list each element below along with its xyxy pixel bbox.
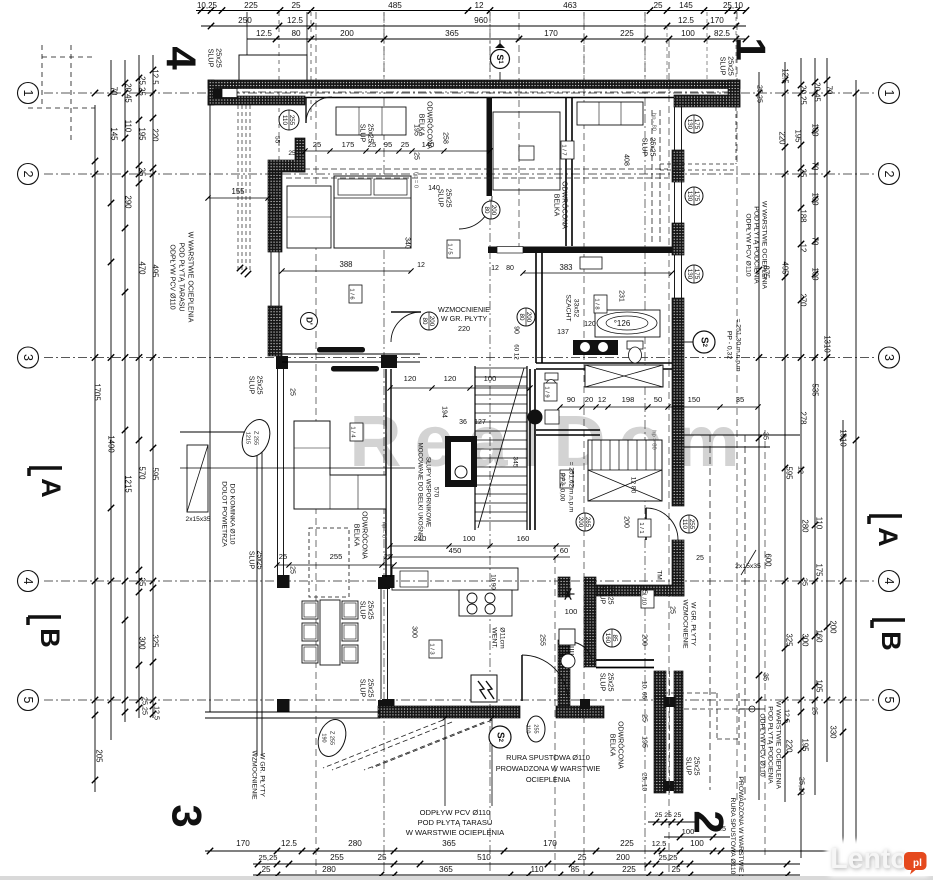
svg-text:365: 365 — [442, 839, 456, 848]
svg-text:1 /10: 1 /10 — [641, 593, 647, 605]
svg-text:255: 255 — [330, 552, 343, 561]
interior wall bath west — [535, 253, 537, 363]
svg-text:535: 535 — [811, 383, 820, 397]
terrace post sw3 — [277, 699, 290, 712]
svg-text:BELKA: BELKA — [553, 194, 560, 217]
svg-text:W GR. PŁYTY: W GR. PŁYTY — [441, 314, 488, 323]
marker Z1 ellipse left — [237, 416, 274, 461]
svg-text:TM: TM — [656, 570, 663, 580]
svg-text:W WARSTWIE OCIEPLENIA: W WARSTWIE OCIEPLENIA — [187, 232, 194, 323]
svg-text:100: 100 — [463, 534, 476, 543]
dashed beam lines mid — [651, 110, 653, 245]
door arc entrance top — [306, 97, 332, 123]
svg-text:80: 80 — [506, 265, 514, 272]
interior wall hall east x530 — [529, 369, 531, 530]
svg-text:140: 140 — [428, 185, 440, 192]
svg-text:3: 3 — [164, 804, 211, 827]
svg-text:= 251,62 m.n.p.m: = 251,62 m.n.p.m — [568, 462, 575, 513]
marker D circle — [301, 313, 318, 330]
interior wall horizontal y250 — [488, 247, 672, 254]
svg-text:100: 100 — [681, 29, 695, 38]
svg-text:RURA SPUSTOWA Ø110: RURA SPUSTOWA Ø110 — [506, 753, 590, 762]
svg-text:12.5: 12.5 — [287, 16, 303, 25]
wing inner wall — [584, 577, 596, 667]
svg-text:330: 330 — [829, 725, 838, 739]
svg-text:WENT.: WENT. — [491, 627, 498, 648]
svg-text:200: 200 — [490, 205, 497, 216]
svg-text:70: 70 — [811, 162, 820, 171]
svg-text:PROWADZONA W WARSTWIE OCIEP: PROWADZONA W WARSTWIE OCIEP — [737, 776, 744, 880]
svg-text:265: 265 — [584, 517, 591, 528]
wall bottom band east — [556, 706, 604, 718]
svg-text:B: B — [35, 628, 65, 648]
door arc right wall — [646, 508, 678, 540]
svg-text:25x25: 25x25 — [367, 600, 374, 619]
svg-text:12.5: 12.5 — [781, 68, 790, 84]
svg-text:383: 383 — [559, 263, 572, 272]
top dimension chain row 2 — [201, 25, 746, 27]
svg-text:70: 70 — [811, 237, 820, 246]
bed bedroom — [334, 176, 411, 248]
svg-text:600: 600 — [764, 553, 773, 567]
door circle entrance — [279, 110, 299, 130]
svg-text:25: 25 — [696, 555, 704, 562]
small crosses bottom terrace — [443, 716, 448, 721]
svg-text:10, 65: 10, 65 — [641, 681, 648, 700]
svg-text:345: 345 — [512, 456, 519, 467]
wing corridor centerline — [669, 671, 671, 793]
svg-text:130: 130 — [686, 119, 693, 130]
column block kitchen sw — [378, 700, 390, 712]
svg-text:120: 120 — [404, 374, 417, 383]
vertical axis x=519 upper — [518, 12, 520, 250]
desk study — [493, 112, 560, 190]
right wall window segment 3 — [674, 255, 676, 300]
room tag 1/4 — [350, 423, 363, 441]
svg-text:MOCOWANE DO BELKI UKOŚNEJ: MOCOWANE DO BELKI UKOŚNEJ — [417, 443, 425, 542]
svg-text:25: 25 — [577, 853, 587, 862]
svg-text:12.5: 12.5 — [281, 839, 297, 848]
section marker S2 bath — [693, 331, 715, 353]
svg-text:450: 450 — [449, 546, 462, 555]
svg-text:12: 12 — [598, 395, 606, 404]
right dimension line c — [800, 58, 802, 858]
svg-text:495: 495 — [151, 264, 160, 278]
svg-text:ODPŁYW PCV Ø110: ODPŁYW PCV Ø110 — [745, 213, 752, 277]
interior wall vertical x489 upper — [487, 97, 493, 196]
svg-text:155: 155 — [231, 187, 245, 196]
window circle right 2 — [685, 187, 703, 205]
wing east band inner — [674, 671, 683, 793]
grid bubble left 4 — [18, 571, 39, 592]
svg-text:300: 300 — [411, 626, 418, 638]
sofa study — [577, 102, 643, 125]
left dimension line e — [152, 55, 154, 718]
svg-text:ODWRÓCONA: ODWRÓCONA — [617, 721, 626, 769]
svg-text:33x52: 33x52 — [573, 299, 580, 318]
section marker S1 — [499, 40, 501, 86]
svg-text:25x25: 25x25 — [727, 56, 736, 76]
svg-text:80: 80 — [291, 29, 301, 38]
wall top-left corner cap — [208, 80, 214, 105]
terrace upper edge line — [180, 431, 262, 433]
svg-text:12.5: 12.5 — [783, 709, 792, 723]
section marker A left — [29, 466, 62, 470]
svg-text:1 / 5: 1 / 5 — [447, 243, 453, 254]
svg-text:2: 2 — [21, 171, 35, 178]
svg-text:SŁUPY WSPORNIKOWE: SŁUPY WSPORNIKOWE — [425, 457, 432, 527]
svg-text:200: 200 — [340, 29, 354, 38]
svg-text:1310: 1310 — [823, 335, 832, 353]
grid bubble right 4 — [879, 571, 900, 592]
bottom right small chain — [648, 821, 695, 823]
svg-text:120: 120 — [444, 374, 457, 383]
vertical axis x=311 upper — [310, 12, 312, 120]
svg-text:W GR. PŁYTY: W GR. PŁYTY — [690, 602, 697, 646]
chimney flue box — [187, 445, 208, 512]
svg-text:170: 170 — [236, 839, 250, 848]
svg-text:SLUP: SLUP — [599, 586, 606, 605]
svg-text:160: 160 — [517, 534, 530, 543]
interior dim kitchen y557 — [390, 556, 570, 558]
column block living sw — [276, 356, 288, 369]
dresser bedroom — [336, 107, 406, 135]
svg-text:175: 175 — [693, 191, 700, 202]
svg-text:50: 50 — [654, 395, 662, 404]
svg-text:225: 225 — [620, 29, 634, 38]
svg-text:25: 25 — [279, 552, 287, 561]
svg-text:hp = 80: hp = 80 — [651, 430, 657, 450]
svg-text:25: 25 — [291, 1, 301, 10]
svg-text:hp - 80: hp - 80 — [651, 113, 657, 131]
column block kitchen nw — [378, 577, 390, 589]
svg-text:110: 110 — [681, 519, 688, 529]
svg-text:1910: 1910 — [839, 429, 848, 447]
svg-text:130: 130 — [686, 191, 693, 202]
svg-text:280: 280 — [801, 519, 810, 533]
svg-text:12: 12 — [474, 1, 484, 10]
svg-text:85: 85 — [570, 865, 580, 874]
svg-text:190: 190 — [321, 733, 327, 742]
svg-text:12.5: 12.5 — [256, 29, 272, 38]
svg-text:300: 300 — [801, 633, 810, 647]
svg-text:194: 194 — [441, 406, 448, 418]
svg-text:1: 1 — [882, 90, 896, 97]
svg-text:198: 198 — [622, 395, 635, 404]
svg-text:W GR. PŁYTY: W GR. PŁYTY — [259, 753, 266, 797]
grid bubble right 2 — [879, 164, 900, 185]
svg-text:12: 12 — [417, 262, 425, 269]
svg-text:SLUP: SLUP — [248, 376, 255, 395]
left wall upper — [268, 172, 282, 252]
svg-text:25,25: 25,25 — [756, 85, 765, 103]
svg-text:25: 25 — [138, 168, 147, 177]
svg-text:BELKA: BELKA — [353, 524, 360, 547]
svg-text:60: 60 — [560, 546, 568, 555]
svg-text:PP - 0,32: PP - 0,32 — [726, 331, 733, 359]
svg-text:4: 4 — [158, 46, 205, 70]
interior wall bath south — [536, 362, 672, 364]
wall top-left lower band — [208, 96, 305, 105]
window circle right 3 — [685, 265, 703, 283]
right terrace outline — [684, 434, 800, 436]
svg-text:25,25: 25,25 — [141, 697, 150, 715]
svg-text:120: 120 — [584, 321, 596, 328]
svg-text:25x25: 25x25 — [445, 188, 452, 207]
left dimension line d — [138, 55, 140, 718]
svg-text:150: 150 — [688, 395, 701, 404]
svg-text:POD PŁYTĄ TARASU: POD PŁYTĄ TARASU — [418, 818, 493, 827]
svg-text:175: 175 — [815, 563, 824, 577]
svg-text:25x25: 25x25 — [607, 672, 614, 691]
svg-text:570: 570 — [138, 466, 147, 480]
svg-text:PROWADZONA W WARSTWIE: PROWADZONA W WARSTWIE — [496, 764, 601, 773]
svg-text:Lento: Lento — [830, 843, 908, 875]
svg-text:100: 100 — [690, 839, 704, 848]
logo white halo — [826, 840, 932, 877]
interior dim terrace y565 — [277, 564, 394, 566]
wall top-right band — [674, 95, 740, 107]
svg-text:WZMOCNIENIE: WZMOCNIENIE — [682, 599, 689, 649]
svg-text:25x25: 25x25 — [256, 375, 263, 394]
svg-text:1 / 9: 1 / 9 — [544, 386, 550, 397]
stair landing box with cross — [588, 440, 662, 501]
dashed beam lines grid2 — [286, 168, 668, 170]
svg-text:25: 25 — [669, 606, 676, 614]
svg-text:35: 35 — [736, 395, 744, 404]
terrace left boundary — [209, 105, 211, 712]
door circle hall — [482, 201, 500, 219]
drain leader lines bottom — [444, 718, 446, 806]
svg-text:1 / 3: 1 / 3 — [429, 643, 435, 654]
room tag 1/1 — [638, 519, 651, 537]
svg-text:325: 325 — [785, 633, 794, 647]
svg-text:300: 300 — [138, 636, 147, 650]
svg-text:25x25: 25x25 — [215, 48, 224, 68]
grid axis line 1 — [44, 92, 874, 94]
bottom dimension chain row A — [205, 850, 855, 852]
svg-text:25: 25 — [289, 566, 296, 574]
svg-text:SLUP: SLUP — [248, 551, 255, 570]
svg-text:12.5: 12.5 — [652, 839, 667, 848]
svg-text:4: 4 — [882, 578, 896, 585]
vertical axis x=737 — [736, 12, 738, 800]
door circle stairs west — [420, 312, 438, 330]
svg-text:20,45: 20,45 — [124, 83, 133, 103]
room tag 1/3 — [429, 640, 442, 658]
room tag 1/6 — [349, 285, 362, 303]
svg-text:25: 25 — [401, 140, 409, 149]
svg-text:325: 325 — [151, 634, 160, 648]
svg-text:12: 12 — [799, 244, 808, 253]
window sill bar 2 — [331, 366, 379, 372]
svg-text:25, 10: 25, 10 — [641, 773, 648, 792]
vertical axis x=384 — [383, 12, 385, 874]
wall left step horizontal — [268, 160, 305, 172]
svg-text:1705: 1705 — [93, 383, 102, 401]
right drain dashed route — [716, 693, 718, 739]
top extension lines — [383, 12, 385, 80]
svg-text:100: 100 — [565, 607, 578, 616]
right wall below door — [672, 540, 684, 596]
door arc wing — [570, 642, 592, 664]
svg-text:B: B — [876, 631, 906, 651]
svg-text:1490: 1490 — [107, 435, 116, 453]
svg-text:SZACHT: SZACHT — [565, 294, 572, 321]
bottom dimension chain row B — [253, 863, 800, 865]
svg-text:SLUP: SLUP — [359, 124, 366, 143]
svg-text:130: 130 — [686, 269, 693, 280]
vertical axis x=279 upper — [278, 12, 280, 170]
interior wall living east — [385, 369, 387, 577]
right wall window segment 1 — [674, 107, 676, 152]
svg-text:hp = 0: hp = 0 — [381, 522, 387, 538]
svg-text:175: 175 — [342, 140, 355, 149]
right dimension line g — [855, 80, 857, 870]
interior wall wc — [536, 429, 600, 431]
svg-text:195: 195 — [794, 129, 803, 143]
svg-text:595: 595 — [785, 466, 794, 480]
svg-text:Z 255: Z 255 — [329, 731, 335, 745]
svg-text:160: 160 — [604, 633, 611, 644]
svg-text:495: 495 — [781, 261, 790, 275]
svg-text:2: 2 — [686, 810, 733, 833]
svg-text:DO KOMINKA Ø110: DO KOMINKA Ø110 — [229, 483, 236, 544]
svg-text:20: 20 — [585, 395, 593, 404]
svg-text:200: 200 — [428, 316, 435, 327]
svg-text:231: 231 — [618, 290, 625, 302]
svg-text:510: 510 — [477, 853, 491, 862]
svg-text:200: 200 — [623, 516, 630, 528]
svg-text:60 12: 60 12 — [513, 344, 520, 360]
svg-text:W WARSTWIE OCIEPLENIA: W WARSTWIE OCIEPLENIA — [406, 828, 505, 837]
svg-text:175: 175 — [693, 269, 700, 280]
svg-text:RURA SPUSTOWA Ø110: RURA SPUSTOWA Ø110 — [729, 798, 736, 875]
svg-text:WZMOCNIENIE: WZMOCNIENIE — [438, 305, 490, 314]
left dimension line b — [110, 60, 112, 740]
room tag 1/8 — [594, 295, 607, 313]
wardrobe bedroom — [287, 186, 331, 248]
grid axis line 3 — [44, 357, 874, 359]
wc fixtures — [545, 373, 558, 380]
svg-text:80: 80 — [421, 318, 428, 325]
svg-text:BELKA: BELKA — [609, 734, 616, 757]
svg-text:1 / 6: 1 / 6 — [349, 288, 355, 299]
interior dim 155 — [208, 197, 268, 199]
interior dim kitchen y546 — [390, 545, 570, 547]
svg-text:110: 110 — [530, 865, 543, 874]
svg-text:ODPŁYW PCV Ø110: ODPŁYW PCV Ø110 — [759, 713, 766, 777]
grid bubble right 5 — [879, 690, 900, 711]
svg-text:170: 170 — [544, 29, 558, 38]
svg-text:10 90: 10 90 — [490, 574, 497, 590]
svg-text:220: 220 — [151, 128, 160, 142]
svg-text:DOLOT POWIETRZA: DOLOT POWIETRZA — [221, 481, 228, 547]
svg-text:95: 95 — [384, 140, 392, 149]
top dimension chain row 3 — [247, 38, 746, 40]
grid axis line 2 — [44, 173, 874, 175]
door circle right — [680, 515, 698, 533]
svg-text:A: A — [36, 478, 66, 498]
terrace post sw1 — [277, 575, 290, 588]
right dimension line b — [784, 62, 786, 802]
svg-text:W WARSTWIE OCIEPLENIA: W WARSTWIE OCIEPLENIA — [775, 701, 782, 790]
vertical axis x=645 — [644, 12, 646, 874]
svg-text:25: 25 — [313, 140, 321, 149]
svg-text:70: 70 — [825, 86, 834, 95]
svg-text:205: 205 — [95, 749, 104, 763]
window circle right 1 — [685, 115, 703, 133]
boiler star symbol — [562, 593, 575, 595]
room tag 1/5 — [447, 240, 460, 258]
svg-text:Z 255: Z 255 — [253, 431, 259, 445]
svg-text:127: 127 — [474, 419, 486, 426]
svg-text:110: 110 — [281, 115, 288, 125]
window top-left white gap — [222, 89, 237, 98]
left dimension line c — [124, 60, 126, 722]
wall left step vertical — [295, 138, 305, 172]
column block top-left — [213, 89, 222, 99]
sofa living corner — [294, 421, 386, 509]
shaft box with cross upper — [585, 365, 663, 387]
vertical axis x=584 — [583, 12, 585, 874]
svg-text:2x15x35: 2x15x35 — [735, 563, 761, 570]
window band grid3 living — [282, 353, 420, 355]
fireplace — [445, 436, 477, 487]
top dimension chain row 1 — [196, 10, 746, 12]
svg-text:25,25: 25,25 — [258, 853, 277, 862]
vertical axis x=765 lower — [764, 430, 766, 855]
electrical box kitchen — [471, 675, 497, 702]
svg-text:2: 2 — [882, 171, 896, 178]
svg-text:200: 200 — [641, 634, 648, 646]
svg-text:255: 255 — [533, 724, 539, 733]
interior dim hall y388 — [390, 387, 530, 389]
left dimension line a — [94, 105, 96, 792]
svg-text:225: 225 — [244, 1, 258, 10]
door arc living east — [391, 312, 421, 342]
marker ellipse door kitchen — [527, 716, 545, 742]
grid bubble left 1 — [18, 83, 39, 104]
door circle stairs east — [517, 308, 535, 326]
svg-text:250: 250 — [238, 16, 252, 25]
left dashed boundary top corner — [70, 45, 72, 140]
svg-text:25,25: 25,25 — [658, 853, 677, 862]
svg-text:SLUP: SLUP — [359, 679, 366, 698]
logo lento badge — [904, 852, 927, 875]
wall se corner band — [590, 585, 684, 596]
svg-text:200: 200 — [525, 312, 532, 323]
svg-text:25: 25 — [811, 707, 820, 715]
svg-text:255: 255 — [288, 115, 295, 126]
vertical axis x=669 — [668, 40, 670, 874]
wall bottom band main — [378, 706, 520, 718]
bottom dimension chain row C — [253, 874, 800, 876]
dining table terrace — [309, 528, 349, 597]
svg-text:280: 280 — [348, 839, 362, 848]
svg-text:5: 5 — [21, 697, 35, 704]
marker Z1 ellipse bottom — [313, 716, 350, 761]
right dimension line d — [814, 58, 816, 795]
svg-text:80: 80 — [483, 207, 490, 214]
svg-text:220: 220 — [778, 131, 787, 145]
svg-text:25: 25 — [289, 388, 296, 396]
interior dim 388 — [282, 270, 411, 272]
svg-text:POD PŁYTĄ PODCIENIA: POD PŁYTĄ PODCIENIA — [753, 206, 760, 284]
svg-text:25: 25 — [288, 150, 296, 157]
svg-text:12.5: 12.5 — [678, 16, 694, 25]
svg-text:80: 80 — [518, 314, 525, 321]
